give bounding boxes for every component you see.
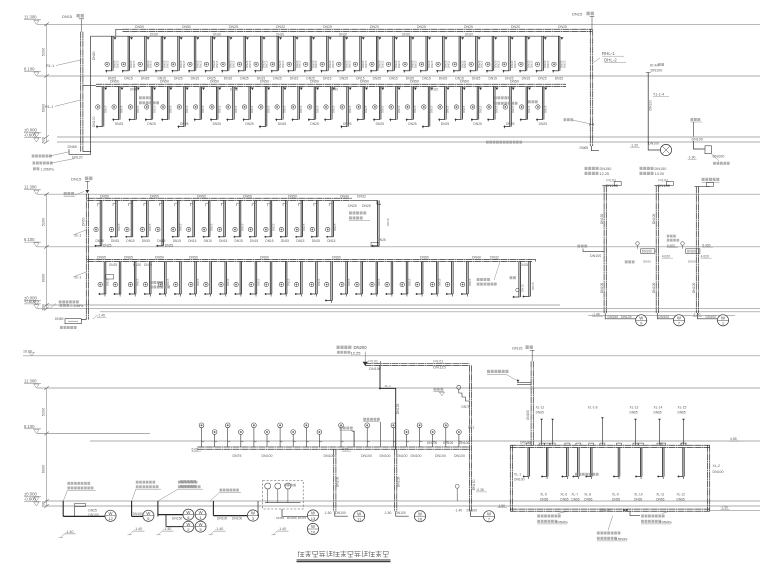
svg-text:DN100: DN100 — [397, 477, 401, 487]
svg-text:DN50: DN50 — [360, 80, 369, 84]
svg-text:DN15: DN15 — [266, 105, 270, 113]
svg-text:DN25: DN25 — [323, 25, 332, 29]
svg-text:-1.40: -1.40 — [455, 509, 463, 513]
svg-text:0.55MPa: 0.55MPa — [615, 537, 627, 541]
svg-text:-1.50: -1.50 — [384, 511, 392, 515]
svg-text:XL-1: XL-1 — [468, 426, 475, 430]
svg-text:DN15: DN15 — [489, 77, 498, 81]
svg-text:XL-10: XL-10 — [634, 493, 643, 497]
svg-text:DN25: DN25 — [362, 204, 371, 208]
svg-text:DN15: DN15 — [105, 278, 109, 286]
svg-text:DN150: DN150 — [600, 167, 612, 171]
svg-text:DN15: DN15 — [240, 223, 244, 231]
svg-text:XL-13: XL-13 — [630, 405, 639, 409]
svg-text:DN15: DN15 — [386, 218, 390, 226]
svg-text:DN65: DN65 — [584, 497, 592, 501]
svg-text:4.020: 4.020 — [662, 254, 670, 258]
svg-text:DN32: DN32 — [276, 25, 285, 29]
svg-text:-1.40: -1.40 — [215, 527, 223, 531]
svg-text:DN40: DN40 — [130, 88, 138, 92]
svg-text:DN15: DN15 — [210, 223, 214, 231]
svg-text:DN150: DN150 — [608, 315, 619, 319]
svg-text:DN65: DN65 — [580, 146, 589, 150]
svg-text:DN25: DN25 — [520, 263, 528, 267]
svg-text:DN100: DN100 — [427, 441, 437, 445]
svg-text:DN65: DN65 — [612, 497, 620, 501]
svg-text:12: 12 — [108, 516, 113, 521]
svg-text:XL-14: XL-14 — [654, 405, 663, 409]
svg-text:DN80: DN80 — [92, 51, 96, 60]
svg-text:DN100: DN100 — [706, 315, 717, 319]
svg-text:DN15: DN15 — [234, 105, 238, 113]
svg-text:DN50: DN50 — [110, 80, 119, 84]
svg-text:DN100: DN100 — [651, 69, 663, 73]
svg-text:DN25: DN25 — [245, 122, 254, 126]
svg-text:DN150: DN150 — [172, 516, 182, 520]
svg-text:DN15: DN15 — [116, 60, 120, 68]
svg-text:DN25: DN25 — [273, 77, 282, 81]
svg-text:DN32: DN32 — [230, 88, 238, 92]
svg-text:12.25: 12.25 — [600, 172, 610, 176]
svg-text:-1.40: -1.40 — [134, 527, 142, 531]
svg-text:DN50: DN50 — [243, 194, 252, 198]
svg-text:DN15: DN15 — [380, 60, 384, 68]
svg-text:XL-11: XL-11 — [656, 493, 664, 497]
svg-text:DN65: DN65 — [654, 411, 662, 415]
svg-text:DN15: DN15 — [215, 60, 219, 68]
svg-text:DN50: DN50 — [332, 255, 341, 259]
svg-text:DN50: DN50 — [643, 260, 651, 264]
svg-text:DN32: DN32 — [490, 255, 499, 259]
svg-text:DN100: DN100 — [600, 283, 604, 293]
svg-text:DN15: DN15 — [136, 278, 140, 286]
svg-text:DN75: DN75 — [462, 405, 470, 409]
svg-text:XL-6: XL-6 — [560, 493, 567, 497]
svg-text:DN100: DN100 — [459, 441, 469, 445]
svg-text:DN65: DN65 — [97, 255, 106, 259]
svg-text:DN25: DN25 — [144, 263, 152, 267]
svg-text:DN15: DN15 — [173, 239, 181, 243]
svg-text:DN15: DN15 — [201, 105, 205, 113]
svg-text:DN40: DN40 — [330, 88, 338, 92]
svg-text:DN25: DN25 — [278, 122, 287, 126]
svg-text:DN15: DN15 — [572, 12, 583, 17]
svg-text:-1.90: -1.90 — [688, 156, 696, 160]
svg-text:DN25: DN25 — [506, 122, 515, 126]
svg-text:XL-1: XL-1 — [514, 473, 521, 477]
svg-text:DN25: DN25 — [340, 77, 349, 81]
svg-text:DN65: DN65 — [540, 497, 548, 501]
svg-text:DN40: DN40 — [340, 194, 349, 198]
svg-text:DN15: DN15 — [232, 60, 236, 68]
svg-text:-1.40: -1.40 — [65, 530, 73, 534]
svg-text:DN100: DN100 — [262, 454, 273, 458]
svg-text:6000: 6000 — [42, 274, 46, 282]
svg-text:DN50: DN50 — [210, 80, 219, 84]
svg-text:DN20: DN20 — [402, 32, 410, 36]
svg-text:DN50: DN50 — [82, 217, 86, 226]
svg-text:DN100: DN100 — [454, 454, 465, 458]
svg-text:DN50: DN50 — [460, 80, 469, 84]
svg-text:DN50: DN50 — [197, 194, 206, 198]
svg-text:5200: 5200 — [42, 48, 46, 56]
svg-text:DN100: DN100 — [659, 315, 670, 319]
svg-text:DN15: DN15 — [198, 60, 202, 68]
svg-text:DN15: DN15 — [165, 60, 169, 68]
svg-text:DN65: DN65 — [536, 411, 544, 415]
svg-text:DN15: DN15 — [219, 239, 227, 243]
svg-text:DN15: DN15 — [96, 239, 104, 243]
svg-text:DN100: DN100 — [324, 454, 335, 458]
svg-text:DN50: DN50 — [288, 194, 297, 198]
svg-text:-1.40: -1.40 — [693, 312, 701, 316]
svg-text:DN15: DN15 — [331, 60, 335, 68]
svg-text:DN15: DN15 — [302, 223, 306, 231]
svg-text:DN100: DN100 — [92, 116, 96, 127]
svg-text:DN25: DN25 — [109, 263, 117, 267]
svg-text:DN15: DN15 — [166, 278, 170, 286]
svg-text:DN15: DN15 — [126, 239, 134, 243]
svg-text:-0.600: -0.600 — [24, 299, 37, 304]
svg-text:DN40: DN40 — [472, 255, 481, 259]
svg-text:DN15: DN15 — [413, 105, 417, 113]
svg-text:l=0.01: l=0.01 — [369, 360, 378, 364]
svg-text:DN15: DN15 — [185, 105, 189, 113]
svg-text:DN15: DN15 — [496, 60, 500, 68]
svg-text:DN25: DN25 — [310, 122, 319, 126]
svg-text:DHL-2: DHL-2 — [604, 57, 617, 62]
svg-text:DN15: DN15 — [281, 239, 289, 243]
svg-text:DN15: DN15 — [512, 345, 523, 350]
svg-text:DN25: DN25 — [103, 244, 112, 248]
svg-text:-1.40: -1.40 — [278, 527, 286, 531]
svg-text:DN100: DN100 — [648, 142, 659, 146]
svg-text:DN65: DN65 — [68, 145, 77, 149]
svg-text:DN15: DN15 — [142, 239, 150, 243]
svg-text:DN65: DN65 — [677, 497, 685, 501]
svg-text:DN15: DN15 — [323, 77, 332, 81]
svg-text:DN15: DN15 — [381, 105, 385, 113]
svg-text:DN15: DN15 — [287, 278, 291, 286]
svg-text:11.300: 11.300 — [24, 15, 37, 20]
svg-text:DN25: DN25 — [180, 122, 189, 126]
svg-text:DN25: DN25 — [141, 77, 150, 81]
svg-text:DN15: DN15 — [299, 105, 303, 113]
svg-text:DN150: DN150 — [369, 367, 381, 371]
svg-text:4.00: 4.00 — [342, 447, 349, 451]
svg-text:4.85: 4.85 — [730, 437, 737, 441]
svg-text:DN50: DN50 — [150, 194, 159, 198]
svg-text:DN15: DN15 — [298, 60, 302, 68]
svg-text:DN15: DN15 — [136, 105, 140, 113]
svg-text:DN15: DN15 — [462, 105, 466, 113]
svg-text:DN150: DN150 — [287, 516, 297, 520]
svg-text:DN150: DN150 — [600, 214, 604, 224]
svg-text:DN100: DN100 — [232, 517, 242, 521]
svg-text:DN65: DN65 — [634, 497, 642, 501]
svg-text:87.4m: 87.4m — [650, 63, 659, 67]
svg-text:DN100: DN100 — [652, 214, 656, 224]
svg-text:DN50: DN50 — [260, 255, 269, 259]
svg-text:DN15: DN15 — [224, 77, 233, 81]
svg-text:DN50: DN50 — [276, 516, 284, 520]
svg-text:DN100: DN100 — [692, 137, 703, 141]
svg-text:DN15: DN15 — [250, 239, 258, 243]
svg-text:DN15: DN15 — [196, 278, 200, 286]
svg-text:DN50: DN50 — [135, 25, 144, 29]
svg-text:DN100: DN100 — [590, 254, 601, 258]
svg-text:DN20: DN20 — [511, 25, 520, 29]
svg-text:DN15: DN15 — [546, 60, 550, 68]
svg-text:DN25: DN25 — [174, 77, 183, 81]
svg-text:R1-1: R1-1 — [46, 64, 54, 68]
svg-text:DN25: DN25 — [439, 77, 448, 81]
svg-text:DN15: DN15 — [117, 223, 121, 231]
svg-text:-0.600: -0.600 — [24, 132, 37, 137]
svg-text:DN75: DN75 — [233, 454, 242, 458]
svg-text:DN25: DN25 — [115, 122, 124, 126]
svg-text:DN100: DN100 — [467, 509, 478, 513]
svg-text:XL-12: XL-12 — [677, 493, 686, 497]
svg-text:DN15: DN15 — [188, 239, 196, 243]
svg-text:DN32: DN32 — [430, 88, 438, 92]
svg-text:DN25: DN25 — [464, 25, 473, 29]
svg-text:DN25: DN25 — [229, 25, 238, 29]
svg-text:DN15: DN15 — [103, 105, 107, 113]
svg-text:DN15: DN15 — [317, 278, 321, 286]
svg-text:DN100: DN100 — [217, 517, 227, 521]
svg-text:DN15: DN15 — [511, 105, 515, 113]
svg-text:16: 16 — [418, 517, 423, 522]
svg-text:DN100: DN100 — [687, 250, 697, 254]
svg-text:5.08: 5.08 — [192, 447, 199, 451]
svg-text:DN65: DN65 — [630, 411, 638, 415]
svg-text:DN25: DN25 — [472, 77, 481, 81]
svg-text:16.80: 16.80 — [23, 350, 32, 354]
svg-text:DN15: DN15 — [152, 105, 156, 113]
svg-text:DN15: DN15 — [478, 105, 482, 113]
svg-text:5.430: 5.430 — [702, 243, 710, 247]
svg-text:-1.40: -1.40 — [97, 314, 105, 318]
svg-text:DN15: DN15 — [271, 223, 275, 231]
svg-text:12.25: 12.25 — [351, 350, 362, 355]
svg-text:DN15: DN15 — [463, 60, 467, 68]
svg-text:DN200: DN200 — [354, 345, 368, 350]
svg-text:DN75: DN75 — [298, 516, 306, 520]
svg-text:DN15: DN15 — [347, 278, 351, 286]
svg-text:DN15: DN15 — [204, 239, 212, 243]
svg-text:DN15: DN15 — [149, 60, 153, 68]
svg-text:-1.50: -1.50 — [498, 504, 506, 508]
svg-text:DN15: DN15 — [265, 60, 269, 68]
svg-text:0.55MPa: 0.55MPa — [660, 520, 672, 524]
svg-text:DN15: DN15 — [290, 77, 299, 81]
svg-text:DN15: DN15 — [314, 60, 318, 68]
svg-text:DN15: DN15 — [71, 176, 82, 181]
svg-text:4.020: 4.020 — [701, 254, 709, 258]
svg-text:XL-12: XL-12 — [536, 405, 545, 409]
svg-text:DN15: DN15 — [111, 239, 119, 243]
svg-text:DN15: DN15 — [218, 105, 222, 113]
svg-text:DN50: DN50 — [160, 80, 169, 84]
svg-text:DN15: DN15 — [348, 105, 352, 113]
svg-text:DN15: DN15 — [157, 239, 165, 243]
svg-text:DN15: DN15 — [327, 239, 335, 243]
svg-text:DN15: DN15 — [521, 284, 525, 292]
svg-text:DN25: DN25 — [147, 122, 156, 126]
svg-text:DN65: DN65 — [571, 497, 579, 501]
svg-text:DN100: DN100 — [435, 454, 446, 458]
svg-text:-1.40: -1.40 — [163, 527, 171, 531]
svg-text:DN15: DN15 — [120, 105, 124, 113]
svg-text:DN100: DN100 — [411, 454, 422, 458]
svg-text:XL-1: XL-1 — [385, 384, 392, 388]
svg-text:DN100: DN100 — [642, 250, 652, 254]
svg-text:DN100: DN100 — [692, 283, 696, 293]
svg-text:DN25: DN25 — [88, 508, 97, 512]
svg-text:DN25: DN25 — [539, 122, 548, 126]
svg-text:10: 10 — [311, 529, 316, 534]
svg-text:DN65: DN65 — [560, 497, 568, 501]
svg-text:600: 600 — [42, 137, 46, 143]
svg-text:DN15: DN15 — [522, 77, 531, 81]
svg-text:DN15: DN15 — [226, 278, 230, 286]
svg-text:13: 13 — [311, 516, 316, 521]
svg-text:DN25: DN25 — [213, 122, 222, 126]
svg-text:DN15: DN15 — [389, 77, 398, 81]
svg-text:DN65: DN65 — [124, 255, 133, 259]
svg-text:XL-8: XL-8 — [584, 493, 591, 497]
svg-text:DN15: DN15 — [513, 60, 517, 68]
svg-text:DN50: DN50 — [260, 80, 269, 84]
svg-text:-1.50: -1.50 — [721, 506, 729, 510]
svg-text:DN15: DN15 — [248, 60, 252, 68]
svg-text:600: 600 — [42, 501, 46, 507]
svg-text:DN25: DN25 — [376, 122, 385, 126]
svg-text:DN20: DN20 — [133, 263, 141, 267]
svg-text:DN50: DN50 — [688, 260, 696, 264]
svg-text:DN15: DN15 — [438, 278, 442, 286]
svg-text:DN100: DN100 — [443, 441, 453, 445]
svg-text:XL-2: XL-2 — [713, 464, 720, 468]
svg-text:DN100: DN100 — [652, 283, 656, 293]
svg-text:DN25: DN25 — [373, 77, 382, 81]
svg-text:DN50: DN50 — [310, 80, 319, 84]
svg-text:11.300: 11.300 — [24, 185, 37, 190]
svg-text:DN15: DN15 — [265, 239, 273, 243]
svg-text:DN15: DN15 — [422, 77, 431, 81]
svg-text:DN150: DN150 — [526, 410, 530, 420]
svg-text:DN50: DN50 — [189, 255, 198, 259]
svg-text:DN15: DN15 — [124, 77, 133, 81]
svg-text:DN50: DN50 — [420, 255, 429, 259]
svg-text:DN25: DN25 — [343, 122, 352, 126]
svg-text:DN25: DN25 — [378, 238, 386, 242]
svg-text:DN65: DN65 — [678, 411, 686, 415]
svg-text:DN25: DN25 — [538, 77, 547, 81]
svg-text:DN50: DN50 — [410, 80, 419, 84]
svg-text:DN15: DN15 — [169, 105, 173, 113]
svg-text:0.55MPa: 0.55MPa — [556, 520, 568, 524]
svg-text:DN20: DN20 — [465, 32, 473, 36]
svg-text:Y1-1-4: Y1-1-4 — [653, 93, 664, 97]
svg-text:DN100: DN100 — [649, 100, 653, 111]
svg-text:DN15: DN15 — [256, 278, 260, 286]
svg-text:DN50: DN50 — [55, 317, 64, 321]
svg-text:DN20: DN20 — [213, 32, 221, 36]
svg-text:5.600: 5.600 — [667, 244, 675, 248]
svg-text:DN125: DN125 — [433, 365, 446, 370]
svg-text:DN15: DN15 — [332, 105, 336, 113]
svg-text:-0.600: -0.600 — [24, 496, 37, 501]
svg-text:DN15: DN15 — [527, 105, 531, 113]
svg-text:DN100: DN100 — [133, 512, 143, 516]
svg-text:DN15: DN15 — [531, 282, 535, 290]
svg-text:DN15: DN15 — [191, 77, 200, 81]
svg-text:DN15: DN15 — [132, 60, 136, 68]
svg-text:DN32: DN32 — [357, 194, 366, 198]
svg-text:DN15: DN15 — [397, 105, 401, 113]
svg-text:DN20: DN20 — [370, 25, 379, 29]
svg-text:XL-5: XL-5 — [540, 493, 547, 497]
svg-text:DN15: DN15 — [333, 223, 337, 231]
svg-text:DN15: DN15 — [62, 14, 73, 19]
svg-text:XL-1-8: XL-1-8 — [588, 405, 598, 409]
svg-text:6.100: 6.100 — [24, 66, 35, 71]
svg-text:DN50: DN50 — [100, 194, 109, 198]
svg-text:DN15: DN15 — [480, 60, 484, 68]
svg-text:DN15: DN15 — [364, 60, 368, 68]
svg-text:RHL-1: RHL-1 — [602, 51, 615, 56]
svg-text:DN15: DN15 — [430, 60, 434, 68]
svg-text:-1.40: -1.40 — [592, 312, 600, 316]
svg-text:-0.35: -0.35 — [476, 488, 484, 492]
svg-text:DN15: DN15 — [468, 278, 472, 286]
svg-text:DN15: DN15 — [446, 105, 450, 113]
svg-text:5200: 5200 — [42, 218, 46, 226]
svg-text:DN100: DN100 — [713, 470, 724, 474]
svg-text:DN15: DN15 — [495, 105, 499, 113]
svg-text:DN50: DN50 — [182, 25, 191, 29]
svg-text:DN20: DN20 — [150, 32, 158, 36]
svg-text:DN15: DN15 — [429, 105, 433, 113]
svg-text:DN25: DN25 — [441, 122, 450, 126]
svg-text:DN25: DN25 — [240, 77, 249, 81]
svg-text:DN100: DN100 — [397, 454, 408, 458]
svg-text:DN15: DN15 — [148, 223, 152, 231]
svg-text:DN100: DN100 — [361, 454, 372, 458]
svg-text:DN15: DN15 — [281, 60, 285, 68]
svg-text:-1.50: -1.50 — [324, 511, 332, 515]
svg-text:6.100: 6.100 — [24, 237, 35, 242]
svg-text:DN20: DN20 — [276, 32, 284, 36]
svg-text:DN15: DN15 — [529, 60, 533, 68]
svg-text:DN25: DN25 — [558, 25, 567, 29]
svg-text:DN15: DN15 — [312, 239, 320, 243]
svg-text:5200: 5200 — [42, 408, 46, 416]
svg-text:DN15: DN15 — [407, 278, 411, 286]
svg-text:DN15: DN15 — [296, 239, 304, 243]
svg-text:DN15: DN15 — [179, 223, 183, 231]
svg-text:DN15: DN15 — [563, 60, 567, 68]
svg-text:XL-9: XL-9 — [612, 493, 619, 497]
svg-text:DN15: DN15 — [250, 105, 254, 113]
svg-text:DN150: DN150 — [600, 508, 611, 512]
svg-text:DN25: DN25 — [417, 25, 426, 29]
svg-text:13.00: 13.00 — [655, 172, 665, 176]
svg-text:DN100: DN100 — [380, 454, 391, 458]
svg-text:DN15: DN15 — [347, 60, 351, 68]
